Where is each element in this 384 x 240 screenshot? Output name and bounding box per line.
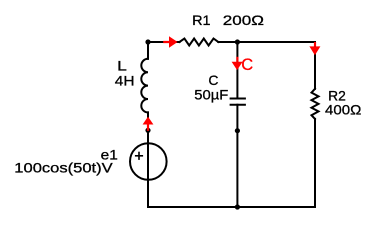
svg-text:4H: 4H [115, 72, 135, 88]
svg-text:R1: R1 [192, 12, 211, 28]
svg-text:50µF: 50µF [194, 87, 228, 103]
svg-text:400Ω: 400Ω [325, 102, 361, 118]
svg-text:L: L [117, 58, 127, 74]
svg-text:200Ω: 200Ω [223, 12, 264, 28]
svg-text:C: C [208, 72, 218, 88]
svg-text:100cos(50t)V: 100cos(50t)V [14, 160, 113, 176]
svg-text:C: C [241, 56, 253, 74]
